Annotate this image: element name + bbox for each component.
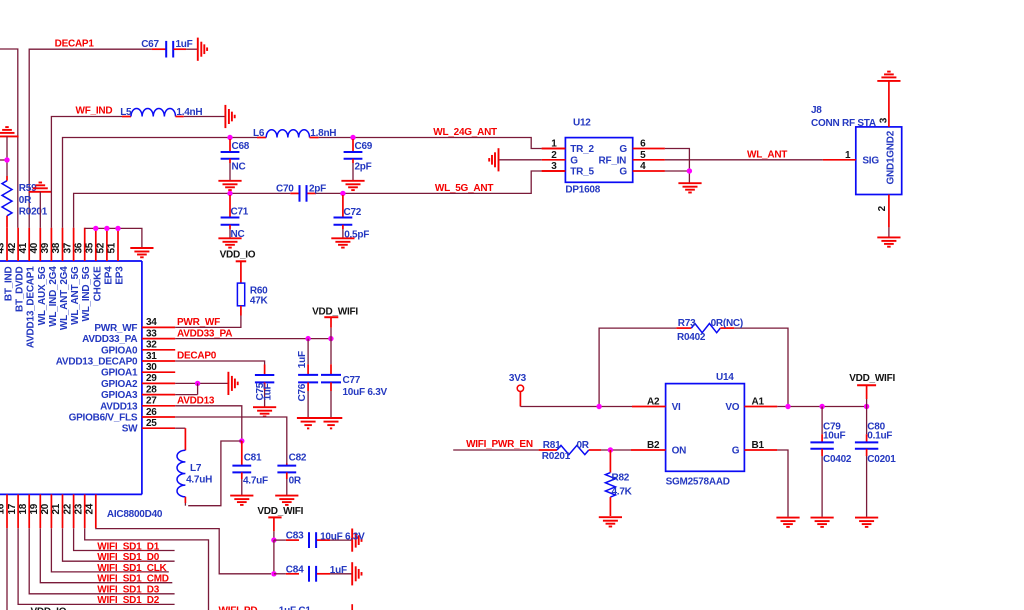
svg-text:21: 21	[51, 503, 62, 514]
svg-text:30: 30	[146, 362, 157, 373]
svg-text:R82: R82	[612, 473, 630, 484]
svg-text:43: 43	[0, 242, 7, 253]
svg-text:SGM2578AAD: SGM2578AAD	[666, 476, 730, 487]
svg-text:WL_ANT_5G: WL_ANT_5G	[70, 266, 81, 325]
svg-text:WL_5G_ANT: WL_5G_ANT	[435, 183, 493, 194]
svg-text:R0201: R0201	[542, 451, 571, 462]
svg-text:24: 24	[85, 503, 96, 514]
svg-text:WIFI_PD: WIFI_PD	[219, 606, 258, 610]
svg-text:VO: VO	[725, 402, 739, 413]
svg-text:1uF: 1uF	[262, 383, 273, 400]
svg-text:C71: C71	[231, 207, 249, 218]
svg-text:SIG: SIG	[862, 155, 879, 166]
svg-text:GPIOA1: GPIOA1	[101, 368, 138, 379]
svg-text:29: 29	[146, 373, 157, 384]
svg-text:52: 52	[96, 242, 107, 253]
svg-text:6: 6	[640, 139, 646, 150]
svg-text:R0201: R0201	[19, 207, 48, 218]
svg-text:AVDD33_PA: AVDD33_PA	[82, 334, 137, 345]
svg-text:18: 18	[18, 503, 29, 514]
svg-text:R81: R81	[543, 440, 561, 451]
svg-text:WIFI_SD1_D1: WIFI_SD1_D1	[97, 541, 159, 552]
svg-text:AVDD13: AVDD13	[100, 401, 138, 412]
svg-text:C76: C76	[297, 383, 308, 401]
svg-text:G: G	[570, 156, 578, 167]
svg-text:GND1GND2: GND1GND2	[886, 130, 897, 184]
svg-text:C69: C69	[355, 141, 373, 152]
svg-text:51: 51	[107, 242, 118, 253]
svg-text:U14: U14	[716, 372, 734, 383]
svg-text:A1: A1	[752, 396, 765, 407]
svg-text:VDD_WIFI: VDD_WIFI	[312, 307, 358, 318]
svg-text:1uF: 1uF	[176, 39, 193, 50]
svg-text:TR_2: TR_2	[570, 144, 594, 155]
svg-text:31: 31	[146, 351, 157, 362]
svg-text:VDD_IO: VDD_IO	[31, 606, 67, 610]
svg-text:1: 1	[551, 139, 557, 150]
svg-text:16: 16	[0, 503, 7, 514]
svg-text:5: 5	[640, 150, 646, 161]
svg-text:47K: 47K	[250, 295, 269, 306]
svg-text:WIFI_SD1_D2: WIFI_SD1_D2	[97, 595, 159, 606]
svg-text:33: 33	[146, 328, 157, 339]
svg-text:C84: C84	[286, 564, 304, 575]
svg-text:2: 2	[877, 205, 888, 211]
svg-text:WIFI_SD1_D3: WIFI_SD1_D3	[97, 585, 159, 596]
svg-text:ON: ON	[672, 446, 687, 457]
svg-text:EP3: EP3	[115, 266, 126, 285]
svg-text:1.8nH: 1.8nH	[310, 128, 336, 139]
svg-text:3: 3	[551, 161, 557, 172]
svg-text:BT_DVDD: BT_DVDD	[15, 266, 26, 312]
svg-text:27: 27	[146, 396, 157, 407]
svg-text:AVDD13: AVDD13	[177, 396, 215, 407]
svg-text:1uF: 1uF	[297, 351, 308, 368]
svg-text:R0402: R0402	[677, 332, 706, 343]
svg-text:C67: C67	[141, 39, 159, 50]
svg-text:28: 28	[146, 384, 157, 395]
svg-text:C77: C77	[343, 375, 361, 386]
svg-text:1uF: 1uF	[330, 565, 347, 576]
svg-text:1.4nH: 1.4nH	[176, 107, 202, 118]
svg-text:BT_IND: BT_IND	[4, 266, 15, 301]
svg-text:20: 20	[40, 503, 51, 514]
svg-text:22: 22	[62, 503, 73, 514]
svg-text:WL_IND_2G4: WL_IND_2G4	[48, 266, 59, 327]
svg-text:0R: 0R	[289, 475, 302, 486]
svg-text:DP1608: DP1608	[565, 185, 600, 196]
svg-text:4: 4	[640, 161, 646, 172]
svg-text:42: 42	[7, 242, 18, 253]
svg-text:C83: C83	[286, 531, 304, 542]
svg-text:WL_ANT: WL_ANT	[747, 149, 787, 160]
svg-text:VDD_IO: VDD_IO	[220, 250, 256, 261]
svg-text:AVDD33_PA: AVDD33_PA	[177, 328, 232, 339]
svg-text:CONN RF STA: CONN RF STA	[811, 118, 876, 129]
svg-text:J8: J8	[811, 105, 822, 116]
svg-text:C72: C72	[344, 207, 362, 218]
svg-text:2: 2	[551, 150, 557, 161]
svg-text:B2: B2	[647, 440, 660, 451]
svg-text:0R: 0R	[19, 195, 32, 206]
svg-text:2pF: 2pF	[355, 161, 372, 172]
svg-text:C82: C82	[289, 453, 307, 464]
svg-text:U12: U12	[573, 117, 591, 128]
svg-text:G: G	[619, 167, 627, 178]
svg-text:GPIOB6/V_FLS: GPIOB6/V_FLS	[69, 413, 138, 424]
svg-text:A2: A2	[647, 396, 660, 407]
svg-text:38: 38	[51, 242, 62, 253]
svg-text:1: 1	[845, 150, 851, 161]
svg-text:35: 35	[85, 242, 96, 253]
svg-text:19: 19	[29, 503, 40, 514]
svg-text:0R: 0R	[577, 440, 590, 451]
svg-text:4.7uH: 4.7uH	[186, 474, 212, 485]
svg-text:36: 36	[73, 242, 84, 253]
svg-text:WL_ANT_2G4: WL_ANT_2G4	[59, 266, 70, 330]
svg-text:VDD_WIFI: VDD_WIFI	[257, 506, 303, 517]
svg-text:AVDD13_DECAP0: AVDD13_DECAP0	[56, 357, 138, 368]
svg-text:WL_24G_ANT: WL_24G_ANT	[433, 127, 497, 138]
svg-text:3: 3	[878, 117, 889, 123]
svg-text:C0402: C0402	[823, 454, 852, 465]
svg-text:L6: L6	[253, 128, 265, 139]
svg-text:C81: C81	[244, 453, 262, 464]
svg-text:39: 39	[40, 242, 51, 253]
svg-text:10uF: 10uF	[823, 431, 845, 442]
svg-text:EP4: EP4	[103, 266, 114, 285]
svg-text:10uF 6.3V: 10uF 6.3V	[320, 532, 365, 543]
svg-text:B1: B1	[752, 440, 765, 451]
svg-text:2pF: 2pF	[309, 183, 326, 194]
svg-text:40: 40	[29, 242, 40, 253]
svg-text:G: G	[732, 446, 740, 457]
svg-text:WIFI_SD1_CLK: WIFI_SD1_CLK	[97, 563, 167, 574]
svg-text:DECAP0: DECAP0	[177, 351, 217, 362]
svg-text:WIFI_SD1_D0: WIFI_SD1_D0	[97, 552, 159, 563]
svg-text:C0201: C0201	[867, 454, 896, 465]
svg-text:WL_IND_5G: WL_IND_5G	[81, 266, 92, 321]
svg-text:L5: L5	[120, 107, 132, 118]
svg-text:GPIOA2: GPIOA2	[101, 379, 138, 390]
svg-text:AVDD13_DECAP1: AVDD13_DECAP1	[26, 266, 37, 348]
svg-text:WIFI_PWR_EN: WIFI_PWR_EN	[466, 439, 533, 450]
svg-text:WF_IND: WF_IND	[76, 106, 113, 117]
svg-text:R73: R73	[678, 318, 696, 329]
svg-text:0R(NC): 0R(NC)	[711, 318, 743, 329]
svg-text:G: G	[619, 144, 627, 155]
svg-text:37: 37	[62, 242, 73, 253]
svg-text:GPIOA3: GPIOA3	[101, 390, 138, 401]
svg-text:TR_5: TR_5	[570, 167, 594, 178]
svg-text:32: 32	[146, 340, 157, 351]
svg-text:WL_AUX_5G: WL_AUX_5G	[37, 266, 48, 325]
svg-text:34: 34	[146, 317, 157, 328]
svg-text:GPIOA0: GPIOA0	[101, 345, 138, 356]
svg-text:25: 25	[146, 418, 157, 429]
svg-text:VDD_WIFI: VDD_WIFI	[849, 373, 895, 384]
svg-text:VI: VI	[672, 402, 681, 413]
svg-text:PWR_WF: PWR_WF	[177, 317, 220, 328]
svg-text:3V3: 3V3	[509, 373, 527, 384]
svg-text:PWR_WF: PWR_WF	[94, 323, 137, 334]
svg-text:4.7K: 4.7K	[612, 486, 633, 497]
svg-text:23: 23	[73, 503, 84, 514]
svg-text:CHOKE: CHOKE	[92, 266, 103, 301]
svg-text:1uF C1: 1uF C1	[279, 606, 312, 610]
svg-text:C68: C68	[232, 141, 250, 152]
svg-text:L7: L7	[190, 463, 202, 474]
svg-text:17: 17	[7, 503, 18, 514]
svg-text:DECAP1: DECAP1	[55, 39, 95, 50]
svg-text:0.1uF: 0.1uF	[867, 431, 892, 442]
svg-text:RF_IN: RF_IN	[599, 156, 627, 167]
svg-text:SW: SW	[122, 424, 138, 435]
svg-text:26: 26	[146, 407, 157, 418]
svg-text:WIFI_SD1_CMD: WIFI_SD1_CMD	[97, 574, 168, 585]
svg-text:4.7uF: 4.7uF	[243, 475, 268, 486]
svg-text:NC: NC	[232, 161, 246, 172]
svg-text:10uF 6.3V: 10uF 6.3V	[343, 387, 388, 398]
svg-text:AIC8800D40: AIC8800D40	[107, 509, 163, 520]
svg-text:41: 41	[18, 242, 29, 253]
svg-text:NC: NC	[231, 229, 245, 240]
svg-text:C70: C70	[276, 183, 294, 194]
svg-text:0.5pF: 0.5pF	[344, 230, 369, 241]
